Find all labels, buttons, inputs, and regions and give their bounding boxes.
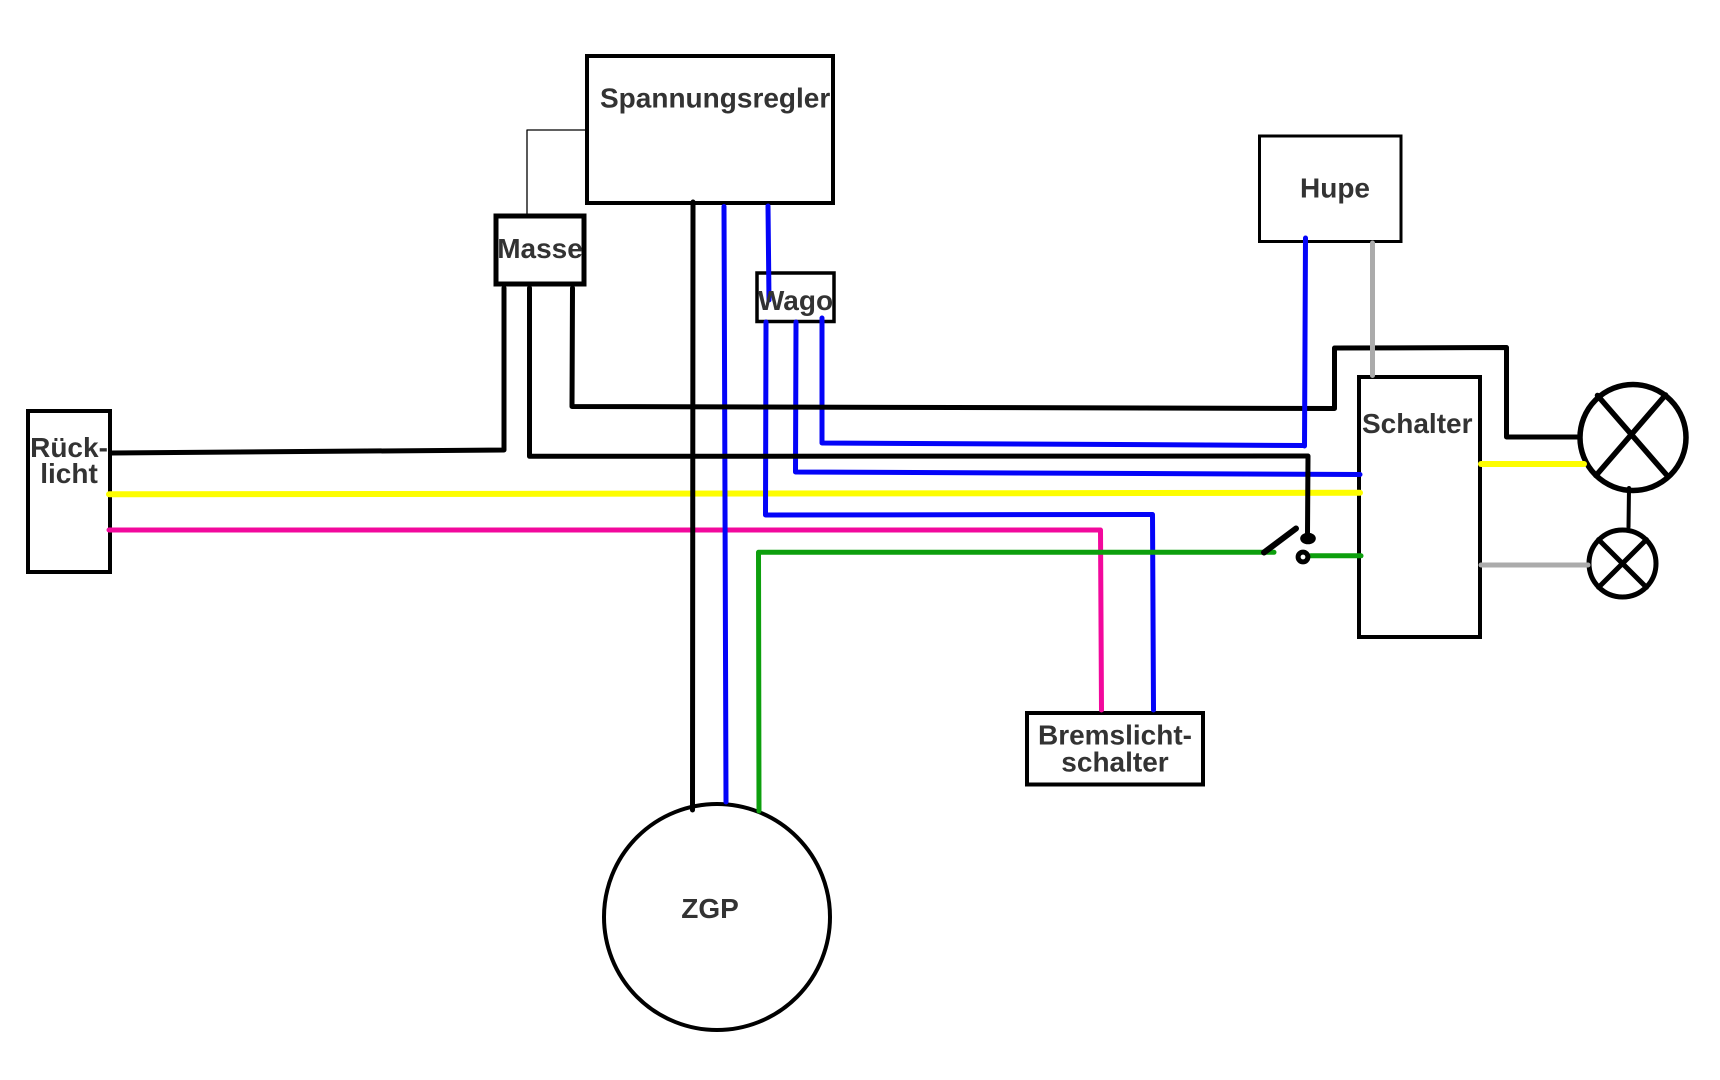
svg-text:licht: licht (40, 458, 98, 489)
svg-text:schalter: schalter (1061, 747, 1168, 778)
svg-text:Schalter: Schalter (1362, 408, 1473, 439)
box Schalter (switch unit) (1359, 377, 1480, 637)
box Ruecklicht (tail light) (28, 411, 110, 572)
lamp L2 pilot lamp symbol (1589, 530, 1656, 597)
svg-text:Hupe: Hupe (1300, 173, 1370, 204)
wire blue Spannungsregler to ZGP (724, 207, 726, 803)
switch S1 common contact dot (1300, 533, 1316, 545)
box Spannungsregler (voltage regulator) (587, 56, 833, 203)
lamp L1 headlight symbol (1580, 385, 1686, 491)
wire blue Wago to Schalter (796, 322, 1361, 475)
box Wago connector (757, 273, 834, 322)
wire magenta Ruecklicht to Bremslichtschalter (109, 530, 1102, 710)
wire black Spannungsregler to ZGP (690, 202, 696, 810)
wire black Masse to Ruecklicht (111, 288, 504, 453)
svg-text:Spannungsregler: Spannungsregler (600, 83, 830, 114)
wire black Masse over Schalter to lamp L1 (572, 288, 1578, 437)
box Bremslichtschalter (brake light switch) (1027, 713, 1203, 785)
switch S1 lever (1264, 529, 1296, 553)
wire black lamp L1 to lamp L2 (1627, 488, 1632, 527)
wire black Masse to switch contact (530, 288, 1309, 534)
wire blue riser to Hupe (1305, 238, 1306, 446)
wire gray Schalter to lamp L2 (1481, 563, 1588, 568)
wire yellow Ruecklicht to Schalter (109, 493, 1360, 495)
wire blue Wago to Bremslichtschalter (766, 322, 1154, 710)
wire gray Hupe to Schalter (1370, 243, 1375, 376)
svg-text:ZGP: ZGP (681, 893, 739, 924)
wire thin black Spannungsregler to Masse (527, 130, 587, 214)
box Hupe (horn) (1260, 136, 1402, 242)
wire yellow Schalter to lamp L1 (1481, 461, 1584, 467)
wire green ZGP to switch (759, 552, 1275, 811)
wire green switch to Schalter (1311, 553, 1361, 558)
svg-text:Wago: Wago (758, 285, 833, 316)
generator circle ZGP (604, 804, 830, 1030)
wire blue Wago to Hupe corner (822, 318, 1303, 446)
wire blue Spannungsregler to Wago (768, 206, 769, 300)
svg-text:Masse: Masse (497, 233, 583, 264)
box Masse (ground block) (496, 216, 584, 284)
switch S1 open contact circle (1298, 552, 1308, 562)
